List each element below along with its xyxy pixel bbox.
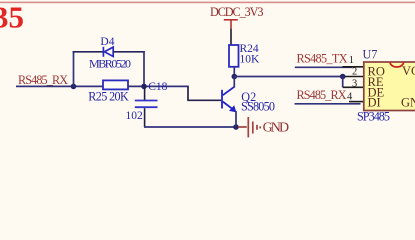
svg-text:4: 4: [347, 91, 353, 102]
junction emitter/gnd node: [233, 124, 239, 130]
svg-text:D4: D4: [100, 36, 114, 48]
svg-text:2: 2: [352, 66, 357, 77]
wire power stem to R24: [230, 29, 232, 45]
svg-text:35: 35: [0, 0, 24, 35]
wire emitter vertical: [235, 111, 237, 127]
diode D4 symbol: [103, 47, 113, 57]
svg-text:3: 3: [352, 78, 357, 89]
ground symbol: [238, 117, 260, 137]
wire diode loop top right segment: [113, 51, 145, 53]
pin 1 stub: [342, 66, 364, 68]
transistor Q2: [222, 87, 234, 110]
svg-text:RS485_RX: RS485_RX: [18, 73, 68, 87]
svg-text:C18: C18: [148, 81, 167, 93]
pin 3 stub: [343, 86, 364, 88]
svg-text:RS485_TX: RS485_TX: [297, 52, 348, 66]
svg-text:GND: GND: [263, 121, 290, 136]
junction collector node: [232, 74, 238, 80]
wire R25 right to junction: [128, 85, 189, 87]
svg-text:1: 1: [349, 55, 354, 66]
wire RS485_RX to pin 4: [295, 103, 361, 105]
svg-text:SS8050: SS8050: [241, 100, 275, 114]
wire diode loop top left segment: [73, 51, 104, 53]
svg-text:DCDC_3V3: DCDC_3V3: [210, 5, 264, 19]
wire RS485_TX to pin 1: [295, 66, 352, 68]
wire R24 bottom to collector node: [233, 67, 235, 77]
svg-text:U7: U7: [363, 47, 378, 61]
svg-text:R25 20K: R25 20K: [88, 90, 129, 104]
IC U7 body: [364, 62, 415, 111]
power bar symbol DCDC_3V3: [224, 20, 238, 29]
pin 4 stub: [349, 101, 364, 103]
top page border line: [0, 2, 415, 4]
emitter arrowhead Q2: [229, 105, 236, 112]
svg-text:VCC: VCC: [402, 64, 415, 78]
junction left of R25: [71, 84, 77, 90]
svg-text:MBR0520: MBR0520: [89, 57, 131, 71]
resistor R24: [229, 45, 239, 67]
pin 2 stub: [343, 76, 364, 78]
wire base from bend to transistor: [188, 86, 221, 100]
svg-text:RS485_RX: RS485_RX: [297, 88, 347, 102]
wire C18 bottom to emitter node: [144, 126, 236, 128]
wire diode loop left vertical: [73, 51, 75, 86]
resistor R25: [103, 80, 128, 89]
svg-text:GND: GND: [401, 95, 415, 109]
wire diode loop right vertical: [143, 51, 145, 86]
wire RE-DE vertical tie: [342, 77, 344, 88]
wire collector vertical: [233, 77, 235, 88]
capacitor C18: [135, 86, 158, 127]
junction right of R25 / C18 top: [141, 84, 147, 90]
wire RS485_RX horizontal: [16, 85, 103, 87]
wire collector node to RE/DE pins: [234, 76, 342, 78]
svg-text:102: 102: [126, 110, 144, 122]
svg-text:DI: DI: [368, 95, 381, 109]
svg-text:10K: 10K: [240, 53, 261, 65]
IC notch arc: [390, 62, 404, 67]
svg-text:SP3485: SP3485: [357, 109, 390, 123]
junction RE/DE tie: [340, 74, 346, 80]
